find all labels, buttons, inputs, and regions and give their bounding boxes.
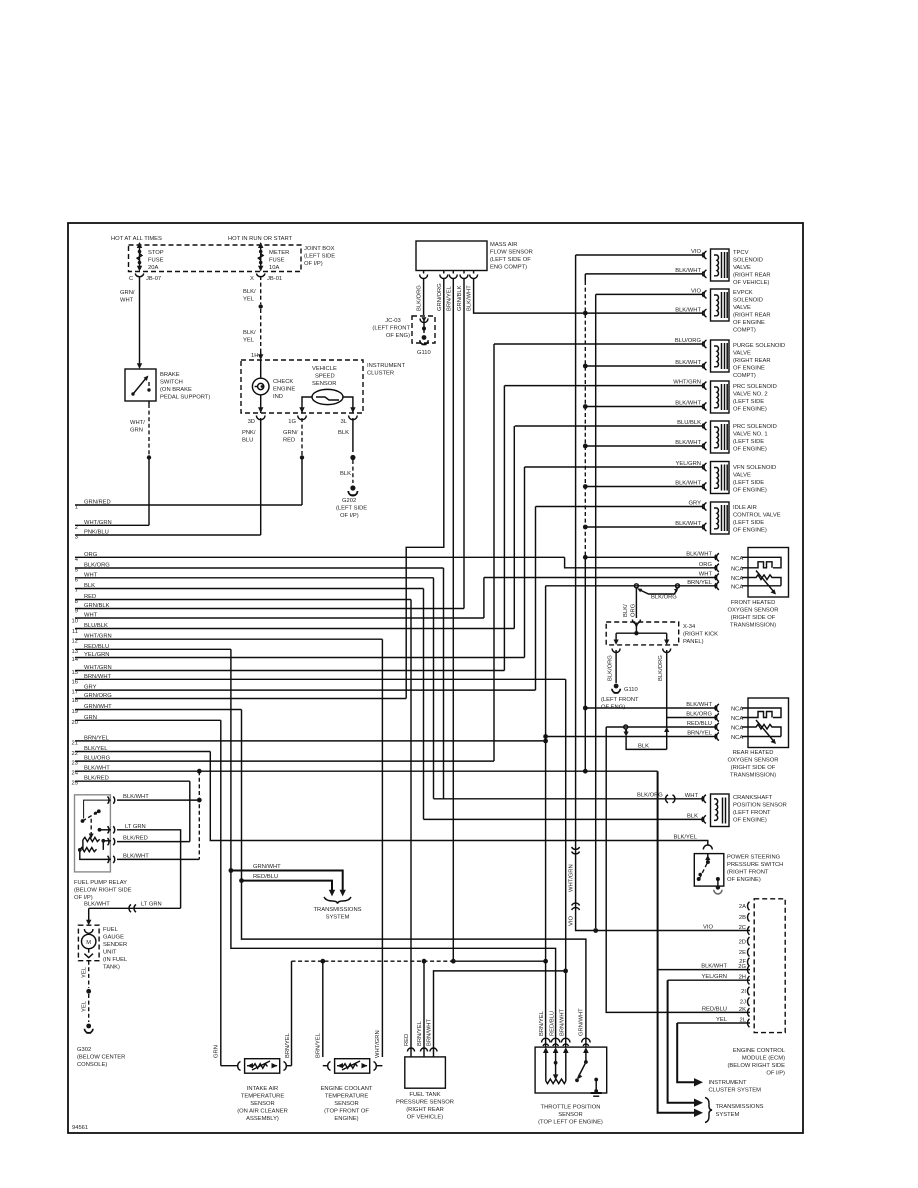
svg-text:(TOP LEFT OF ENGINE): (TOP LEFT OF ENGINE) xyxy=(538,1120,603,1126)
wire BLU/ORG purge staircase vertical xyxy=(493,344,495,761)
idle air control valve wires xyxy=(536,501,704,528)
svg-text:(RIGHT REAR: (RIGHT REAR xyxy=(733,313,771,319)
rear O2 wire BLK/WHT xyxy=(583,702,743,713)
wire GRN/WHT fuse to brake switch xyxy=(139,276,141,366)
svg-text:OF ENGINE): OF ENGINE) xyxy=(733,447,767,453)
ground G302 xyxy=(85,1024,93,1033)
brake switch xyxy=(125,369,156,401)
svg-text:BLK: BLK xyxy=(638,743,649,749)
svg-text:ASSEMBLY): ASSEMBLY) xyxy=(246,1116,279,1122)
throttle position sensor connector arcs xyxy=(542,1038,591,1046)
X-34 left leg BLK/ORG to ground xyxy=(608,649,621,684)
svg-text:NCA: NCA xyxy=(731,707,743,713)
svg-text:NCA: NCA xyxy=(731,584,743,590)
svg-text:TEMPERATURE: TEMPERATURE xyxy=(241,1094,285,1100)
wire BRN/YEL vertical to ECT xyxy=(322,961,324,1057)
svg-text:2A: 2A xyxy=(739,904,746,910)
svg-text:OF ENGINE): OF ENGINE) xyxy=(727,877,761,883)
svg-text:10: 10 xyxy=(72,619,78,625)
svg-text:BRN/YEL: BRN/YEL xyxy=(417,1020,423,1046)
instrument cluster (dashed box) xyxy=(241,360,363,413)
svg-text:16: 16 xyxy=(72,680,78,686)
svg-text:VALVE NO. 1: VALVE NO. 1 xyxy=(733,432,768,438)
svg-text:BLK/WHT: BLK/WHT xyxy=(467,285,473,311)
svg-text:GRN/WHT: GRN/WHT xyxy=(579,1008,585,1036)
row 3 PNK/BLU xyxy=(75,530,261,541)
svg-text:G302: G302 xyxy=(77,1047,91,1053)
svg-text:OF ENGINE: OF ENGINE xyxy=(733,366,765,372)
svg-text:(LEFT FRONT: (LEFT FRONT xyxy=(733,810,771,816)
svg-text:(RIGHT SIDE OF: (RIGHT SIDE OF xyxy=(731,615,776,621)
wire BLK/YEL fuse to cluster xyxy=(243,276,263,360)
rear heated oxygen sensor box xyxy=(742,698,789,748)
svg-text:FLOW SENSOR: FLOW SENSOR xyxy=(490,250,533,256)
svg-text:OXYGEN SENSOR: OXYGEN SENSOR xyxy=(728,758,779,764)
pin X JB-01 xyxy=(250,274,282,283)
svg-text:COMPT): COMPT) xyxy=(733,373,756,379)
row 8 RED xyxy=(75,594,411,605)
svg-text:BLK/WHT: BLK/WHT xyxy=(675,481,701,487)
wire BLU/BLK PRC1 staircase vertical xyxy=(513,426,515,629)
ECM pin labels xyxy=(738,904,747,1023)
check engine ind lamp xyxy=(252,360,269,413)
svg-text:BLK/WHT: BLK/WHT xyxy=(123,794,149,800)
svg-text:BLK/ORG: BLK/ORG xyxy=(651,595,677,601)
svg-text:BLU/ORG: BLU/ORG xyxy=(675,338,702,344)
svg-text:VEHICLE: VEHICLE xyxy=(312,366,337,372)
svg-text:(RIGHT FRONT: (RIGHT FRONT xyxy=(727,870,769,876)
svg-text:YEL: YEL xyxy=(716,1017,728,1023)
splice circles on BRN/YEL with BLK/ORG tag xyxy=(634,584,679,601)
row 25 BLK/RED xyxy=(72,776,190,787)
solenoid PURGE wires xyxy=(494,338,703,366)
svg-text:REAR HEATED: REAR HEATED xyxy=(733,750,774,756)
row 18 GRN/ORG xyxy=(72,693,407,704)
splice circle RED/BLU jumper xyxy=(624,725,629,737)
vehicle speed sensor (reed symbol) xyxy=(302,389,353,413)
ground G202 xyxy=(348,485,357,495)
svg-text:BRN/YEL: BRN/YEL xyxy=(316,1032,322,1058)
svg-text:PRC SOLENOID: PRC SOLENOID xyxy=(733,384,777,390)
svg-text:SENSOR: SENSOR xyxy=(334,1101,358,1107)
svg-text:GRN: GRN xyxy=(214,1045,220,1058)
svg-text:(LEFT SIDE OF: (LEFT SIDE OF xyxy=(490,257,531,263)
svg-text:(LEFT SIDE: (LEFT SIDE xyxy=(733,520,764,526)
engine coolant temperature sensor wire labels xyxy=(316,1030,382,1058)
svg-text:(ON BRAKE: (ON BRAKE xyxy=(160,387,192,393)
svg-text:FUEL TANK: FUEL TANK xyxy=(409,1092,440,1098)
svg-text:YEL: YEL xyxy=(243,338,255,344)
row 4 ORG xyxy=(75,552,565,563)
svg-text:GRN/WHT: GRN/WHT xyxy=(253,864,281,870)
svg-text:2D: 2D xyxy=(739,939,746,945)
svg-text:BLK/ORG: BLK/ORG xyxy=(417,285,423,311)
power steering pressure switch xyxy=(694,845,724,886)
svg-text:G202: G202 xyxy=(342,498,356,504)
fuel tank pressure sensor wires xyxy=(404,1018,437,1057)
svg-text:OF ENGINE): OF ENGINE) xyxy=(733,488,767,494)
wire BRN/YEL vertical to TPS xyxy=(545,586,547,1047)
wire BLK/WHT relay pin1 xyxy=(117,794,202,802)
wire GRN/BLK MAF down xyxy=(457,278,464,609)
svg-text:RED/BLU: RED/BLU xyxy=(549,1011,555,1036)
svg-text:(BELOW CENTER: (BELOW CENTER xyxy=(77,1055,125,1061)
wire BLK/WHT vertical row24 to relay xyxy=(198,771,200,859)
svg-text:IND: IND xyxy=(273,394,283,400)
fuel pump relay pins xyxy=(108,797,115,864)
svg-text:TANK): TANK) xyxy=(103,965,120,971)
svg-text:FUEL PUMP RELAY: FUEL PUMP RELAY xyxy=(74,880,127,886)
svg-text:YEL/GRN: YEL/GRN xyxy=(676,461,701,467)
svg-text:ENGINE CONTROL: ENGINE CONTROL xyxy=(733,1048,786,1054)
solenoid valve VFN xyxy=(702,462,729,494)
wire VIO EVPCK vertical xyxy=(595,294,597,928)
svg-text:2E: 2E xyxy=(739,950,746,956)
svg-text:(LEFT SIDE: (LEFT SIDE xyxy=(336,506,367,512)
svg-text:JOINT BOX: JOINT BOX xyxy=(304,246,335,252)
svg-text:GAUGE: GAUGE xyxy=(103,935,124,941)
svg-text:BLK/WHT: BLK/WHT xyxy=(701,964,727,970)
solenoid VFN wires xyxy=(525,461,704,487)
wire BLK/WHT row24 to ECM 2G and transmissions xyxy=(658,771,750,1117)
svg-text:BRN/YEL: BRN/YEL xyxy=(687,580,713,586)
svg-text:BLU/BLK: BLU/BLK xyxy=(677,420,701,426)
svg-text:MASS AIR: MASS AIR xyxy=(490,242,517,248)
wire row12 WHT/GRN vertical to ECT xyxy=(381,639,383,1057)
svg-text:BLK/WHT: BLK/WHT xyxy=(675,401,701,407)
BLK jumper wire xyxy=(626,727,669,749)
svg-text:POWER STEERING: POWER STEERING xyxy=(727,855,781,861)
svg-text:TEMPERATURE: TEMPERATURE xyxy=(325,1094,369,1100)
svg-text:NCA: NCA xyxy=(731,716,743,722)
svg-text:PURGE SOLENOID: PURGE SOLENOID xyxy=(733,343,785,349)
wire BLK/RED relay pin3 xyxy=(117,836,190,842)
svg-text:PANEL): PANEL) xyxy=(683,639,704,645)
svg-text:JB-01: JB-01 xyxy=(267,276,282,282)
wire row6 WHT vertical to crank xyxy=(433,578,435,799)
svg-text:YEL: YEL xyxy=(243,297,255,303)
wire YEL ECM 2L to instrument cluster system xyxy=(677,1017,750,1087)
svg-text:C: C xyxy=(129,276,133,282)
wire BLK/WHT to fuel gauge sender xyxy=(84,901,181,925)
svg-text:OF VEHICLE): OF VEHICLE) xyxy=(733,280,769,286)
svg-text:G110: G110 xyxy=(417,350,431,356)
svg-text:(LEFT SIDE: (LEFT SIDE xyxy=(733,439,764,445)
connector X-34 (dashed box) xyxy=(606,622,679,645)
svg-text:BRN/WHT: BRN/WHT xyxy=(427,1018,433,1046)
svg-text:(LEFT SIDE: (LEFT SIDE xyxy=(733,399,764,405)
svg-text:SENSOR: SENSOR xyxy=(312,381,336,387)
row 24 BLK/WHT xyxy=(72,766,658,777)
wire WHT/GRN PRC2 staircase vertical xyxy=(503,386,505,671)
svg-text:SYSTEM: SYSTEM xyxy=(326,915,350,921)
svg-text:FUSE: FUSE xyxy=(269,258,285,264)
svg-text:2B: 2B xyxy=(739,915,746,921)
ECM pin arcs xyxy=(748,902,750,1027)
svg-text:OF ENGINE): OF ENGINE) xyxy=(733,818,767,824)
svg-text:JB-07: JB-07 xyxy=(146,276,161,282)
wire row8 RED vertical to fuel tank pressure sensor xyxy=(410,600,412,1051)
svg-text:BRAKE: BRAKE xyxy=(160,372,180,378)
svg-text:WHT/GRN: WHT/GRN xyxy=(569,864,575,892)
svg-text:COMPT): COMPT) xyxy=(733,328,756,334)
svg-text:OF ENGINE): OF ENGINE) xyxy=(733,407,767,413)
svg-text:VIO: VIO xyxy=(691,289,701,295)
svg-text:ENG COMPT): ENG COMPT) xyxy=(490,265,527,271)
wire VIO to ECM 2C xyxy=(576,845,750,933)
cluster pin 1G xyxy=(288,407,306,425)
row 6 WHT xyxy=(75,572,434,583)
solenoid valve PRC2 xyxy=(702,381,729,413)
wire BLK/ORG MAF to JC-03 xyxy=(417,278,424,315)
svg-text:BLK/: BLK/ xyxy=(243,330,256,336)
wire row7 BLK vertical to crank xyxy=(423,589,425,820)
svg-text:GRN: GRN xyxy=(130,428,143,434)
fuel gauge sender unit (dashed box) xyxy=(78,925,99,961)
svg-text:SPEED: SPEED xyxy=(315,374,335,380)
svg-text:OF ENGINE): OF ENGINE) xyxy=(733,528,767,534)
wire YEL sender to G302 xyxy=(82,961,92,1022)
svg-text:BLK: BLK xyxy=(340,471,351,477)
wire GRN/RED 1G down xyxy=(283,418,304,505)
svg-text:11: 11 xyxy=(72,629,78,635)
svg-text:SWITCH: SWITCH xyxy=(160,380,183,386)
svg-text:M: M xyxy=(86,940,91,946)
svg-text:X: X xyxy=(250,276,254,282)
svg-text:BLU: BLU xyxy=(242,438,253,444)
svg-text:BLK/WHT: BLK/WHT xyxy=(686,702,712,708)
svg-text:CLUSTER: CLUSTER xyxy=(367,371,394,377)
idle air control valve xyxy=(702,502,729,534)
svg-text:WHT: WHT xyxy=(685,793,699,799)
svg-text:THROTTLE POSITION: THROTTLE POSITION xyxy=(541,1105,601,1111)
row 7 BLK xyxy=(75,583,424,594)
ECM dashed box xyxy=(754,899,785,1033)
row 14 YEL/GRN xyxy=(72,652,525,663)
bus junction dots xyxy=(583,311,588,560)
svg-text:POSITION SENSOR: POSITION SENSOR xyxy=(733,803,787,809)
svg-text:CONTROL VALVE: CONTROL VALVE xyxy=(733,513,781,519)
throttle position sensor box xyxy=(535,1047,607,1096)
svg-text:20A: 20A xyxy=(148,265,158,271)
svg-text:NCA: NCA xyxy=(731,556,743,562)
wire YEL/GRN ECM 2H to transmissions xyxy=(668,974,750,1107)
svg-text:VIO: VIO xyxy=(569,916,575,926)
svg-text:SYSTEM: SYSTEM xyxy=(716,1112,740,1118)
row 12 WHT/GRN xyxy=(72,634,383,645)
BRN/YEL bus horizontal xyxy=(292,959,548,964)
row 22 BLK/YEL xyxy=(72,746,211,757)
ground G110 (left front of eng) xyxy=(612,684,638,693)
svg-text:TRANSMISSIONS: TRANSMISSIONS xyxy=(314,907,362,913)
svg-text:(RIGHT SIDE OF: (RIGHT SIDE OF xyxy=(731,765,776,771)
svg-text:WHT/GRN: WHT/GRN xyxy=(375,1030,381,1058)
wire BRN/WHT jumper to fuel tank pressure sensor xyxy=(434,971,566,1050)
row 1 GRN/RED xyxy=(75,500,302,511)
connector pair on VIO vertical with WHT/GRN label xyxy=(569,847,580,926)
svg-text:BLK/WHT: BLK/WHT xyxy=(84,901,110,907)
svg-text:SENDER: SENDER xyxy=(103,942,127,948)
svg-text:YEL: YEL xyxy=(82,966,88,978)
wire BRN/YEL vertical to IAT xyxy=(291,961,293,1065)
pin C JB-07 xyxy=(129,274,161,283)
svg-text:TPCV: TPCV xyxy=(733,250,749,256)
svg-text:3D: 3D xyxy=(248,419,255,425)
svg-text:BRN/YEL: BRN/YEL xyxy=(446,285,452,311)
svg-text:RED: RED xyxy=(283,438,295,444)
wire BLK/ORG down to X-34 xyxy=(623,588,640,624)
row 13 RED/BLU xyxy=(72,644,231,655)
solenoid valve EVPCK xyxy=(702,289,729,321)
solenoid valve PRC1 xyxy=(702,421,729,453)
row 5 BLK/ORG xyxy=(75,563,444,574)
connector JC-03 (dashed box) xyxy=(412,316,435,343)
BLK/WHT bus vertical xyxy=(584,274,586,281)
svg-text:WHT/: WHT/ xyxy=(130,420,145,426)
svg-text:VALVE NO. 2: VALVE NO. 2 xyxy=(733,392,768,398)
solenoid PRC1 wires xyxy=(515,420,703,446)
svg-text:9: 9 xyxy=(75,609,78,615)
wire VIO TPCV vertical xyxy=(575,255,577,845)
svg-text:BRN/YEL: BRN/YEL xyxy=(285,1032,291,1058)
svg-text:INSTRUMENT: INSTRUMENT xyxy=(367,363,405,369)
svg-text:VALVE: VALVE xyxy=(733,305,751,311)
fuse STOP FUSE 20A xyxy=(137,242,142,272)
svg-text:BLK/WHT: BLK/WHT xyxy=(675,268,701,274)
svg-text:MODULE (ECM): MODULE (ECM) xyxy=(742,1056,785,1062)
svg-text:WHT/GRN: WHT/GRN xyxy=(673,380,701,386)
ground G110 at JC-03 xyxy=(417,335,431,356)
mass air flow sensor box xyxy=(416,241,487,271)
svg-text:OF ENGINE: OF ENGINE xyxy=(733,320,765,326)
svg-text:BLK/WHT: BLK/WHT xyxy=(675,440,701,446)
svg-text:HOT AT ALL TIMES: HOT AT ALL TIMES xyxy=(111,236,162,242)
svg-text:2I: 2I xyxy=(741,989,746,995)
engine coolant temperature sensor xyxy=(323,1059,383,1074)
svg-text:BLK: BLK xyxy=(687,813,698,819)
svg-text:3L: 3L xyxy=(341,419,348,425)
wire row25 BLK/RED vertical to relay xyxy=(189,781,191,841)
rear O2 wire BRN/YEL xyxy=(543,731,743,742)
svg-text:(LEFT FRONT: (LEFT FRONT xyxy=(372,326,410,332)
svg-text:TRANSMISSION): TRANSMISSION) xyxy=(730,773,776,779)
svg-text:OF ENG): OF ENG) xyxy=(386,333,410,339)
svg-text:VALVE: VALVE xyxy=(733,265,751,271)
wire row19 GRN/WHT vertical and branches xyxy=(239,710,586,1048)
row 19 GRN/WHT xyxy=(72,704,242,715)
fuel tank pressure sensor box xyxy=(405,1057,446,1088)
svg-text:FUSE: FUSE xyxy=(148,258,164,264)
border frame xyxy=(68,223,803,1133)
solenoid PRC2 wires xyxy=(504,380,703,407)
svg-text:(RIGHT REAR: (RIGHT REAR xyxy=(733,273,771,279)
wire YEL/GRN VFN staircase vertical xyxy=(524,467,526,658)
svg-text:(LEFT FRONT: (LEFT FRONT xyxy=(601,697,639,703)
wire GRN/ORG MAF down with jog xyxy=(406,278,444,699)
svg-text:FUEL: FUEL xyxy=(103,927,119,933)
solenoid valve TPCV xyxy=(702,249,729,281)
svg-text:2C: 2C xyxy=(739,925,746,931)
svg-text:VFN SOLENOID: VFN SOLENOID xyxy=(733,465,776,471)
svg-text:BLK/ORG: BLK/ORG xyxy=(658,655,664,681)
row 23 BLU/ORG xyxy=(72,756,494,767)
row 21 BRN/YEL xyxy=(72,735,548,746)
svg-text:10A: 10A xyxy=(269,265,279,271)
svg-text:RED/BLU: RED/BLU xyxy=(253,874,278,880)
wire BLK/WHT relay pin4 xyxy=(117,853,199,859)
svg-text:NCA: NCA xyxy=(731,576,743,582)
svg-text:RED: RED xyxy=(404,1034,410,1046)
svg-text:PRC SOLENOID: PRC SOLENOID xyxy=(733,424,777,430)
solenoid valve PURGE xyxy=(702,340,729,372)
wire WHT/GRN brake switch down xyxy=(130,401,151,525)
svg-text:TRANSMISSIONS: TRANSMISSIONS xyxy=(716,1104,764,1110)
X-34 right leg BLK/ORG down xyxy=(658,649,671,750)
svg-text:OF I/P): OF I/P) xyxy=(766,1071,785,1077)
svg-text:(RIGHT REAR: (RIGHT REAR xyxy=(733,358,771,364)
svg-text:BLK/WHT: BLK/WHT xyxy=(675,360,701,366)
cluster pin 3D xyxy=(248,407,265,425)
svg-text:BLK/ORG: BLK/ORG xyxy=(686,712,712,718)
cluster pin 3L xyxy=(341,407,358,425)
svg-text:PRESSURE SENSOR: PRESSURE SENSOR xyxy=(396,1100,454,1106)
solenoid EVPCK wires xyxy=(585,289,703,314)
wire BLK 3L down to G202 xyxy=(338,418,356,483)
fuel pump relay box xyxy=(75,795,112,872)
intake air temperature sensor wire labels xyxy=(214,1032,291,1058)
svg-text:NCA: NCA xyxy=(731,735,743,741)
svg-text:(BELOW RIGHT SIDE: (BELOW RIGHT SIDE xyxy=(74,888,132,894)
front O2 wire BRN/YEL xyxy=(546,580,744,591)
crankshaft position sensor box xyxy=(711,794,730,827)
transmissions system brace (bottom right) xyxy=(705,1098,764,1123)
svg-text:IDLE AIR: IDLE AIR xyxy=(733,505,757,511)
wire BLK/WHT MAF to bus xyxy=(467,278,586,313)
rear O2 wire RED/BLU xyxy=(606,721,743,732)
svg-text:BLK/: BLK/ xyxy=(623,604,629,617)
svg-text:BRN/YEL: BRN/YEL xyxy=(539,1010,545,1036)
svg-text:GRY: GRY xyxy=(689,501,702,507)
row 20 GRN xyxy=(72,715,221,726)
svg-text:WHT: WHT xyxy=(120,298,134,304)
svg-text:BLK/ORG: BLK/ORG xyxy=(637,792,663,798)
svg-text:BLK/WHT: BLK/WHT xyxy=(123,853,149,859)
front heated oxygen sensor box xyxy=(742,548,789,598)
crankshaft sensor wire BLK (from row7) xyxy=(424,813,707,823)
svg-text:PRESSURE SWITCH: PRESSURE SWITCH xyxy=(727,862,783,868)
svg-text:BLK/RED: BLK/RED xyxy=(123,836,148,842)
row 10 WHT xyxy=(72,613,484,625)
svg-text:STOP: STOP xyxy=(148,250,164,256)
wire row16 BRN/WHT vertical to TPS xyxy=(563,679,568,1047)
wire RED/BLU rear O2 to ECM 2K xyxy=(606,727,750,1012)
svg-text:METER: METER xyxy=(269,250,289,256)
intake air temperature sensor xyxy=(221,1059,292,1074)
svg-text:JC-03: JC-03 xyxy=(385,318,400,324)
svg-text:FRONT HEATED: FRONT HEATED xyxy=(731,600,776,606)
wire BRN/YEL vertical to FTP xyxy=(423,961,425,1050)
svg-text:BLK/WHT: BLK/WHT xyxy=(675,521,701,527)
front O2 wire WHT (from row 10) xyxy=(484,572,743,583)
svg-text:(RIGHT KICK: (RIGHT KICK xyxy=(683,632,718,638)
transmissions system (middle) brace and label xyxy=(314,897,362,921)
svg-text:LT GRN: LT GRN xyxy=(125,824,146,830)
fuse METER FUSE 10A xyxy=(258,242,263,272)
MAF pin stubs and arcs xyxy=(420,271,478,279)
wire row13 RED/BLU vertical and branches xyxy=(229,649,556,1047)
wire row10 WHT vertical xyxy=(483,578,485,619)
front O2 wire ORG (row 4 jog) xyxy=(565,557,744,572)
